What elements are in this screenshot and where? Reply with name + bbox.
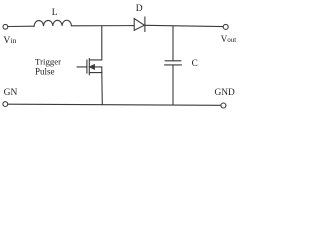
svg-text:Trigger: Trigger: [35, 57, 61, 67]
svg-text:C: C: [192, 58, 198, 68]
wire: Vin terminal to inductor: [8, 25, 34, 27]
svg-text:GN: GN: [4, 88, 18, 98]
svg-text:D: D: [136, 4, 143, 14]
transistor Q1: gate bar: [86, 60, 88, 73]
wire: inductor to diode anode: [71, 25, 134, 27]
transistor Q1: gate lead: [77, 66, 87, 68]
wire: body-to-source vertical: [101, 67, 103, 73]
diode D: anode triangle: [134, 19, 144, 31]
transistor Q1 N-MOSFET: drain stub: [90, 59, 102, 61]
capacitor C: top plate: [165, 60, 181, 62]
wire: capacitor bottom lead: [172, 65, 174, 105]
terminal GN (left ground): [3, 102, 8, 107]
wire: source vertical down to bottom rail: [101, 73, 104, 105]
svg-text:Vin: Vin: [3, 35, 16, 46]
svg-text:Pulse: Pulse: [35, 66, 55, 76]
inductor L: [34, 20, 71, 26]
wire: drain vertical (top rail to MOSFET drain): [101, 26, 103, 60]
terminal GND (right ground): [221, 103, 226, 108]
wire: bottom rail: [8, 104, 221, 105]
transistor Q1: channel bar: [88, 59, 90, 75]
transistor Q1: body arrow: [90, 65, 95, 69]
transistor Q1: source stub: [90, 72, 102, 74]
terminal Vin: [3, 24, 8, 29]
wire: diode cathode to Vout terminal: [145, 25, 223, 26]
wire: capacitor top lead: [172, 26, 174, 61]
svg-text:Vout: Vout: [221, 34, 237, 44]
capacitor C: bottom plate: [165, 64, 182, 66]
transistor Q1: body stub: [94, 66, 102, 68]
terminal Vout: [223, 24, 228, 29]
svg-text:L: L: [52, 8, 58, 18]
diode D: cathode bar: [144, 17, 146, 32]
svg-text:GND: GND: [215, 88, 236, 98]
